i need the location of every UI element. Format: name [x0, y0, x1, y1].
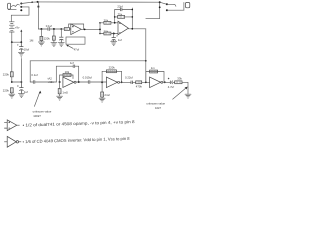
- svg-text:220k: 220k: [3, 89, 10, 93]
- node: [53, 28, 55, 30]
- node: [40, 28, 42, 30]
- svg-text:4.7uf: 4.7uf: [168, 85, 174, 89]
- input jack J1: [8, 3, 20, 9]
- output switch SW2: [159, 1, 161, 3]
- svg-text:120k: 120k: [44, 37, 51, 41]
- ground: [58, 43, 64, 47]
- node: [60, 28, 62, 30]
- switch lever SW1: [21, 2, 32, 3]
- opamp2 output: [128, 28, 145, 30]
- capacitor electrolytic: [60, 29, 62, 37]
- svg-text:10uf: 10uf: [24, 48, 30, 52]
- svg-text:0.1uf: 0.1uf: [31, 73, 37, 77]
- output node U2a: [78, 81, 80, 83]
- feedback columns: [114, 10, 116, 23]
- svg-text:100k?: 100k?: [33, 114, 41, 118]
- ground: [9, 94, 15, 98]
- svg-text:1M: 1M: [29, 39, 34, 43]
- ground: [57, 96, 63, 100]
- resistor 120k: [53, 29, 55, 36]
- svg-text:220k: 220k: [109, 66, 116, 70]
- inverter U2a: [63, 77, 76, 88]
- op-amp U1b: [118, 21, 128, 35]
- feedback resistor loop U2a: [60, 75, 73, 82]
- resistor 2m2 shunt: [101, 82, 103, 92]
- ground: [18, 94, 24, 98]
- feedback resistor 220k loop U2b: [102, 71, 122, 82]
- ground: [18, 52, 24, 57]
- node bias divider: [12, 81, 22, 83]
- output node: [81, 28, 100, 30]
- svg-text:+12v: +12v: [48, 80, 55, 84]
- legend opamp symbol: [4, 120, 19, 131]
- svg-text:0.1uf: 0.1uf: [46, 24, 52, 28]
- svg-text:470k: 470k: [136, 84, 143, 88]
- +9v arrow: [20, 31, 22, 43]
- bias rail: [30, 60, 146, 62]
- ground: [185, 94, 191, 98]
- svg-text:0.22uf: 0.22uf: [125, 76, 133, 80]
- svg-text:1m5: 1m5: [62, 90, 68, 94]
- 47uf note arrow: [68, 45, 74, 48]
- svg-text:2m2: 2m2: [104, 93, 110, 97]
- capacitor 10uf: [17, 42, 23, 52]
- capacitor 4.7uf polarity: [168, 78, 169, 79]
- capacitor 1uf opamp2 input: [113, 33, 115, 35]
- svg-text:33k: 33k: [177, 77, 182, 81]
- inverter U2b: [106, 77, 119, 88]
- ground: [51, 43, 57, 47]
- resistor series: [64, 28, 69, 31]
- feedback cap loop U2a: [56, 66, 73, 82]
- coupling drop: [29, 61, 31, 82]
- svg-text:220k: 220k: [3, 73, 10, 77]
- legend inverter symbol: [4, 136, 21, 147]
- resistor 470k series: [136, 81, 142, 84]
- output jack J2: [183, 3, 185, 11]
- wire jack to battery: [11, 7, 29, 22]
- resistor 1M: [40, 29, 42, 36]
- op-amp U1a: [71, 24, 81, 35]
- capacitor 1uf bias: [17, 82, 23, 94]
- svg-text:+9v: +9v: [15, 25, 20, 29]
- resistor 1m5 shunt: [59, 82, 61, 89]
- opamp2 input column: [99, 23, 101, 34]
- inverter U2c: [150, 77, 163, 88]
- svg-text:47uf: 47uf: [74, 47, 80, 51]
- inverter 2 input nodes: [101, 81, 103, 83]
- wire bias riser: [20, 59, 22, 83]
- top bus wire: [38, 1, 160, 3]
- node battery junction: [12, 41, 21, 43]
- node mixer: [145, 81, 147, 83]
- svg-text:1m: 1m: [151, 66, 156, 70]
- inverter input nodes: [59, 81, 61, 83]
- feedback resistor 1m loop U2c: [146, 72, 164, 83]
- svg-text:1uf: 1uf: [118, 38, 122, 42]
- jack contact dots: [20, 3, 22, 5]
- wire down to opamp input row: [37, 2, 39, 29]
- ground: [99, 98, 105, 102]
- battery B1 9V: [9, 22, 14, 42]
- node under switch: [38, 6, 40, 8]
- ground: [38, 42, 44, 46]
- svg-text:0.015uf: 0.015uf: [83, 75, 93, 79]
- empty value box: [66, 37, 85, 44]
- signal row into opamp1: [38, 28, 48, 30]
- svg-text:unknown value: unknown value: [33, 110, 52, 114]
- svg-text:10k?: 10k?: [155, 106, 162, 110]
- wire down to inverter row: [145, 29, 147, 83]
- pot volume: [182, 82, 188, 94]
- bypass wire from switch: [146, 2, 160, 18]
- feedback wire U1a: [69, 24, 84, 29]
- wire battery rail down: [11, 42, 13, 72]
- output node U2c: [164, 81, 166, 83]
- output node U2b: [121, 81, 123, 83]
